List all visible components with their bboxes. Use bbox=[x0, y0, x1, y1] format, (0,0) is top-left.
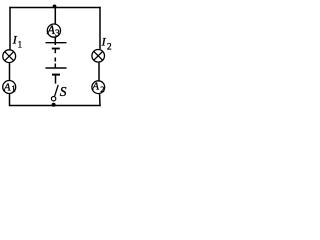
battery cell 1 short plate bbox=[52, 48, 60, 50]
svg-text:A: A bbox=[46, 23, 55, 37]
battery cell 1 long plate bbox=[46, 42, 67, 44]
svg-text:S: S bbox=[60, 84, 67, 99]
battery cell 2 long plate bbox=[46, 67, 67, 69]
wire bottom bbox=[9, 105, 100, 107]
svg-text:A: A bbox=[3, 81, 11, 93]
battery cell 2 short plate bbox=[52, 74, 60, 76]
node junction dot bottom (switch to bottom wire) bbox=[52, 103, 56, 107]
wire middle (battery to switch) bbox=[55, 75, 57, 84]
wire (down to long plate 2) bbox=[54, 64, 56, 69]
svg-text:2: 2 bbox=[100, 84, 104, 94]
svg-text:I2: I2 bbox=[101, 34, 112, 52]
switch S pivot circle bbox=[51, 97, 55, 101]
wire middle (A3 to battery) bbox=[54, 38, 56, 46]
lamp L1 bbox=[3, 50, 16, 63]
wire left (top-left corner down to lamp L1) bbox=[9, 7, 11, 50]
wire right (A2 to bottom-right corner) bbox=[99, 94, 101, 106]
ammeter A2 bbox=[92, 81, 105, 94]
wire right (top-right corner down to lamp L2) bbox=[99, 7, 101, 50]
svg-text:I1: I1 bbox=[12, 32, 22, 49]
wire left (A1 to bottom-left corner) bbox=[9, 94, 11, 106]
node junction dot top bbox=[53, 5, 57, 9]
wire top bbox=[9, 7, 100, 9]
wire right (lamp L2 to ammeter A2) bbox=[98, 63, 100, 81]
wire dash (more cells) bbox=[54, 58, 56, 62]
wire left (lamp L1 to ammeter A1) bbox=[9, 63, 11, 80]
lamp L2 bbox=[92, 50, 105, 63]
ammeter A3 bbox=[47, 24, 60, 37]
svg-text:1: 1 bbox=[11, 84, 16, 94]
wire (short plate 1 down) bbox=[54, 49, 56, 54]
switch S blade bbox=[55, 85, 59, 96]
svg-text:3: 3 bbox=[55, 29, 60, 39]
wire middle (top dot to ammeter A3) bbox=[54, 8, 56, 24]
svg-text:A: A bbox=[91, 81, 99, 93]
ammeter A1 bbox=[3, 81, 16, 94]
